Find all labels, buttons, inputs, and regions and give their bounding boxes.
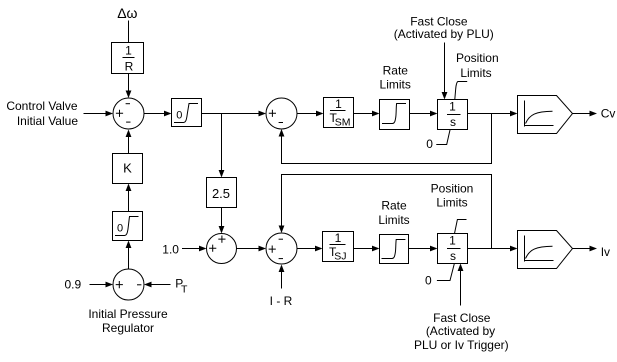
- svg-text:1: 1: [449, 100, 456, 114]
- wire SAT1 to summer S2: [202, 111, 267, 117]
- block RL2 rate limiter: [380, 235, 409, 264]
- block RL1 rate limiter: [380, 100, 410, 130]
- svg-text:(Activated by: (Activated by: [426, 324, 495, 338]
- svg-text:Limits: Limits: [378, 213, 409, 227]
- wire PT into summer S6: [144, 282, 171, 288]
- node Cv output label: [601, 106, 616, 120]
- summer S2: [266, 98, 297, 129]
- svg-text:1: 1: [335, 231, 342, 245]
- wire 1/TSM to rate limiter RL1: [354, 111, 380, 117]
- block SAT2 limited integrator: [113, 212, 143, 241]
- block SAT1 limited integrator: [172, 99, 202, 127]
- wire NL2 to Iv output: [573, 246, 598, 252]
- wire S2 to 1/TSM: [297, 111, 324, 117]
- label position limits bottom: [431, 181, 474, 209]
- svg-text:0.9: 0.9: [65, 277, 82, 291]
- svg-text:0: 0: [426, 137, 433, 151]
- wire 1/R to summer S1: [126, 74, 132, 99]
- wire S4 to 1/TSJ: [297, 246, 323, 252]
- wire SAT2 to K: [126, 184, 132, 212]
- svg-text:Cv: Cv: [601, 106, 616, 120]
- label fast close bottom: [414, 311, 509, 352]
- svg-text:SM: SM: [335, 116, 351, 128]
- leader position limits top to INT1: [455, 82, 467, 100]
- wire feedback loop1 to S2: [279, 114, 492, 164]
- wire RL2 to integrator INT2: [409, 246, 438, 252]
- svg-text:Δω: Δω: [117, 5, 137, 21]
- svg-text:PLU or Iv Trigger): PLU or Iv Trigger): [414, 338, 509, 352]
- svg-text:1: 1: [335, 97, 342, 111]
- node Iv output label: [601, 245, 610, 259]
- svg-text:1.0: 1.0: [162, 243, 179, 257]
- svg-text:1: 1: [449, 234, 456, 248]
- block NL1 Cv flow curve: [518, 96, 573, 134]
- svg-text:Initial Value: Initial Value: [17, 114, 78, 128]
- node 0.9 input label: [65, 277, 82, 291]
- svg-text:0: 0: [117, 222, 123, 234]
- svg-text:K: K: [123, 161, 132, 176]
- wire 0.9 into summer S6: [90, 282, 114, 288]
- wire branch down to gain 2.5: [219, 114, 225, 178]
- label fast close top: [394, 15, 494, 42]
- block gain 2.5: [207, 178, 237, 208]
- block 1/R droop gain: [112, 43, 144, 74]
- label 0 lower limit INT1: [426, 130, 450, 151]
- wire gain 2.5 to summer S3: [219, 208, 225, 234]
- svg-text:1: 1: [125, 44, 132, 58]
- wire INT1 output to flow curve NL1: [468, 111, 518, 117]
- wire fast close arrow into INT1 top: [442, 43, 448, 100]
- wire 1/TSJ to rate limiter RL2: [354, 246, 380, 252]
- svg-text:Limits: Limits: [460, 66, 491, 80]
- svg-text:Initial Pressure: Initial Pressure: [88, 307, 168, 321]
- block NL2 Iv flow curve: [518, 231, 573, 269]
- summer S6 initial pressure regulator: [113, 269, 144, 300]
- label position limits top: [456, 51, 499, 80]
- wire RL1 to integrator INT1: [410, 111, 438, 117]
- label rate limits top: [380, 64, 411, 92]
- node delta-omega input label: [117, 5, 137, 21]
- svg-text:0: 0: [176, 110, 182, 122]
- label rate limits bottom: [378, 198, 409, 227]
- svg-text:Fast Close: Fast Close: [433, 311, 491, 325]
- svg-text:s: s: [450, 249, 456, 263]
- svg-text:Limits: Limits: [380, 77, 411, 91]
- svg-text:0: 0: [425, 273, 432, 287]
- wire fast close arrow into INT2 bottom: [458, 264, 464, 306]
- wire delta-omega to 1/R: [128, 21, 130, 43]
- svg-text:SJ: SJ: [334, 250, 346, 262]
- wire initial value into summer S1: [84, 111, 114, 117]
- label 0 lower limit INT2: [425, 264, 454, 288]
- leader position limits bottom to INT2: [455, 220, 467, 234]
- wire 1.0 into summer S3: [182, 246, 207, 252]
- svg-text:Limits: Limits: [436, 196, 467, 210]
- wire feedback loop2 to S4: [279, 175, 492, 249]
- svg-text:Control Valve: Control Valve: [6, 99, 77, 113]
- svg-text:T: T: [181, 283, 188, 295]
- block INT1 1/s position integrator: [438, 100, 468, 130]
- svg-text:I - R: I - R: [270, 294, 293, 308]
- wire S3 to summer S4: [237, 246, 267, 252]
- svg-text:Position: Position: [456, 51, 499, 65]
- node PT input label: [175, 276, 188, 295]
- summer S3: [207, 234, 237, 264]
- block 1/TSJ jet deflector lag: [323, 231, 354, 262]
- svg-text:Rate: Rate: [381, 198, 407, 212]
- wire NL1 to Cv output: [573, 111, 598, 117]
- wire S6 to SAT2: [126, 241, 132, 270]
- node 1.0 input label: [162, 243, 179, 257]
- summer S1 control valve: [113, 98, 144, 129]
- node I - R input label: [270, 294, 293, 308]
- wire I - R into S4: [279, 265, 285, 289]
- summer S4: [266, 233, 297, 264]
- wire INT2 output to flow curve NL2: [468, 246, 518, 252]
- wire K to S1: [126, 130, 132, 154]
- label initial pressure regulator: [88, 307, 168, 335]
- block INT2 1/s position integrator: [438, 234, 468, 264]
- block 1/TSM gate servo lag: [324, 97, 354, 128]
- svg-text:R: R: [125, 60, 134, 74]
- svg-text:Rate: Rate: [383, 64, 409, 78]
- svg-text:Regulator: Regulator: [102, 321, 154, 335]
- node control valve initial value label: [6, 99, 78, 128]
- wire S1 to limiter SAT1: [144, 111, 172, 117]
- svg-text:(Activated by PLU): (Activated by PLU): [394, 27, 494, 41]
- svg-text:Position: Position: [431, 181, 474, 195]
- svg-text:2.5: 2.5: [212, 186, 230, 201]
- svg-text:Iv: Iv: [601, 245, 610, 259]
- svg-text:s: s: [450, 115, 456, 129]
- block K gain: [113, 154, 143, 184]
